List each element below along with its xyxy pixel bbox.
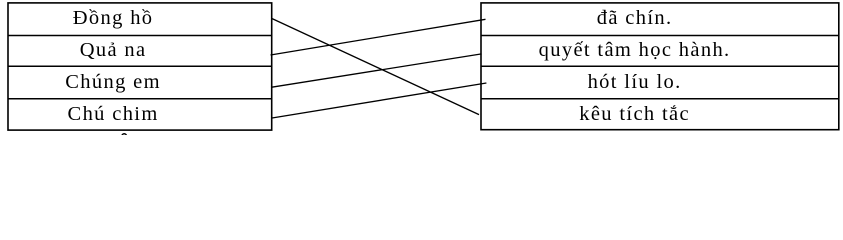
right cell text: quyet tam hoc hanh.	[539, 39, 731, 62]
right table row divider 3	[481, 98, 839, 100]
right table outer box	[481, 3, 839, 130]
left cell text: Chung em	[65, 71, 161, 94]
matching line B: Qua na to da chin	[271, 19, 486, 55]
matching line A: Dong ho to keu tich tac	[272, 18, 479, 114]
right table row divider 2	[481, 65, 839, 67]
left cell text: Qua na	[80, 39, 147, 62]
right cell text: hot liu lo.	[588, 71, 682, 94]
left table row divider 3	[8, 98, 272, 100]
left table row divider 2	[8, 65, 272, 67]
left table row divider 1	[8, 35, 272, 37]
right cell text: keu tich tac	[579, 103, 690, 126]
cut-off glyph fragment below table	[122, 134, 126, 138]
matching line D: Chu chim to hot liu lo	[272, 83, 486, 118]
left cell text: Chu chim	[68, 103, 159, 126]
matching line C: Chung em to quyet tam hoc hanh	[271, 54, 482, 87]
drawing layer: tables and matching lines	[0, 0, 843, 135]
left table outer box	[8, 3, 272, 130]
left cell text: Dong ho	[73, 7, 154, 30]
right table row divider 1	[481, 35, 839, 37]
right cell text: da chin.	[597, 7, 673, 30]
